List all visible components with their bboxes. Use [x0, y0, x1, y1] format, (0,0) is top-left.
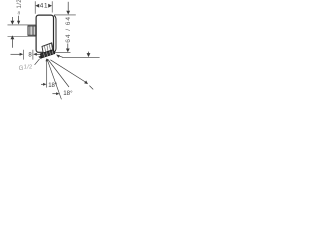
svg-text:41: 41 — [40, 3, 49, 10]
svg-text:18°: 18° — [63, 90, 73, 97]
svg-text:64 / 64: 64 / 64 — [65, 16, 72, 43]
svg-text:≈ 1/2: ≈ 1/2 — [16, 0, 23, 14]
svg-text:18°: 18° — [48, 83, 58, 89]
svg-text:1/2: 1/2 — [24, 64, 33, 70]
